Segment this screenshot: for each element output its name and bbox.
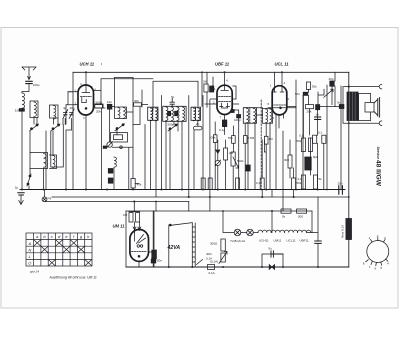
padder box 252 (111, 133, 128, 143)
svg-text:Cg: Cg (48, 196, 52, 200)
bottom row resistors mid (213, 135, 217, 143)
wire horiz at 106.5 to speaker (287, 106, 340, 108)
svg-text:0,5M: 0,5M (248, 136, 255, 140)
svg-text:50n: 50n (295, 92, 300, 96)
capacitor at heater end (315, 241, 321, 243)
svg-text:500k: 500k (237, 159, 244, 163)
svg-text:Ö: Ö (28, 261, 31, 266)
svg-text:50k: 50k (297, 139, 302, 143)
wire antenna to coil (22, 84, 29, 93)
wire: mid column verticals (162, 72, 210, 197)
svg-text:20k: 20k (307, 110, 312, 114)
svg-text:0,1A: 0,1A (209, 271, 215, 275)
svg-text:Service: Service (376, 147, 380, 160)
resistor 20k anode UCH (95, 105, 103, 108)
ground earth arrow (19, 195, 23, 205)
svg-text:gez.14: gez.14 (30, 269, 39, 273)
UM11 internals (132, 222, 153, 267)
resistors to bus right (313, 135, 317, 143)
wire to heaters (253, 232, 258, 234)
IF transformer ZF1 (148, 107, 158, 121)
wire top links (95, 79, 153, 184)
power box left cap (153, 211, 155, 250)
capacitor dark 10n (210, 86, 214, 92)
wire verticals left section (30, 118, 66, 190)
table letters (27, 234, 90, 265)
svg-text:2µ: 2µ (15, 186, 19, 190)
svg-text:UCL11: UCL11 (287, 239, 296, 243)
series resistor 300ohm (221, 239, 225, 251)
svg-text:UM11: UM11 (274, 239, 282, 243)
coil under padder (114, 157, 116, 167)
capacitor 100p antenna coupling (26, 81, 32, 83)
UBF11 internals (205, 72, 239, 120)
wire: UCH grid left boundary (66, 72, 73, 189)
wire: second bus (52, 196, 349, 198)
band filter coil second (50, 105, 59, 119)
wire long vertical x261 (260, 100, 262, 190)
junction dots on buses (21, 71, 350, 268)
AF transformer (243, 108, 256, 124)
svg-text:UBF11: UBF11 (300, 239, 309, 243)
svg-text:40p: 40p (70, 106, 75, 110)
band switch contacts row 1 (30, 124, 39, 131)
tube UCH11 (78, 85, 94, 115)
resistor blob under coil (108, 169, 113, 174)
cone (374, 98, 380, 118)
mains switch (169, 223, 193, 267)
wire column under caps (102, 105, 134, 190)
svg-text:1n: 1n (316, 113, 320, 117)
wire: top HT bus (73, 71, 349, 73)
svg-text:500: 500 (298, 215, 303, 219)
heater winding UCL11 (284, 230, 297, 232)
svg-text:5,8: 5,8 (15, 109, 20, 113)
X marks (34, 240, 41, 247)
svg-text:5p: 5p (171, 95, 175, 99)
tube pin digits (75, 79, 290, 121)
svg-text:100k: 100k (209, 136, 216, 140)
switch contacts under osc transformer (115, 124, 125, 135)
svg-text:10n: 10n (107, 100, 112, 104)
capacitor 50n (303, 92, 308, 95)
valve socket view (366, 238, 389, 266)
capacitor dark at UM11 right (151, 259, 156, 263)
capacitor 10n dark (107, 104, 112, 109)
wire column x66 x71 (65, 119, 71, 131)
UM11 stage: grid resistors 1M (129, 213, 133, 223)
resistor 300 (288, 155, 292, 168)
wire: inner frame line (153, 81, 198, 110)
wire: chassis ground bus (20, 189, 345, 191)
volume potentiometer 500k (231, 152, 239, 168)
bracket wires (343, 87, 379, 124)
shield dashes in IF cans (153, 107, 250, 123)
svg-text:500p: 500p (96, 101, 103, 105)
capacitor 25n on bus (339, 186, 343, 194)
wire: second top line (115, 77, 134, 79)
svg-text:4p: 4p (63, 106, 67, 110)
svg-text:30k: 30k (312, 85, 317, 89)
svg-text:50n: 50n (157, 259, 162, 263)
svg-text:0,1A: 0,1A (206, 257, 212, 261)
capacitor 2n pill (194, 126, 203, 130)
band switch contacts row 2 (51, 124, 60, 131)
dial lamp 2 (247, 229, 254, 236)
svg-text:Ausführung 48 GW usw. UM 11: Ausführung 48 GW usw. UM 11 (49, 276, 97, 280)
variable resistor 0,1A (219, 252, 227, 264)
resistor 50k low (292, 178, 296, 190)
speaker assembly (339, 84, 382, 125)
resistor pair right mid (301, 138, 305, 152)
capacitor 2u to earth (18, 193, 24, 195)
magnet (365, 103, 374, 113)
rotated model text (374, 147, 381, 187)
fuse 0,1A on mains bus (207, 265, 214, 270)
wave band switch lower (27, 169, 31, 190)
rotated Netz label (341, 225, 345, 238)
svg-text:1M: 1M (269, 137, 274, 141)
oscillator coil assembly (30, 153, 57, 169)
wire: L1 down to ground bus (21, 111, 23, 189)
wire: heater feed line (126, 210, 312, 212)
wire: third bus segment (45, 201, 189, 203)
capacitor dark right of 20k (316, 105, 320, 110)
core mark left of trimmer (103, 146, 106, 148)
svg-text:42VA: 42VA (167, 245, 181, 251)
IF transformer ZF3 (191, 107, 201, 121)
padder trimmer circle (107, 142, 113, 148)
power section: verticals from bus (156, 197, 210, 211)
resistors lower right (301, 175, 305, 189)
svg-text:c: c (51, 234, 53, 239)
resistor 40k (131, 179, 135, 189)
svg-text:UCH 11: UCH 11 (80, 62, 95, 67)
resistor 0,3 (260, 178, 264, 190)
svg-text:50k: 50k (228, 136, 233, 140)
svg-text:100p: 100p (234, 118, 241, 122)
wire: bottom mains bus (126, 266, 349, 268)
tube UCL11 (272, 86, 287, 115)
switch bowtie on bus (269, 265, 274, 270)
capacitor 50n blob (108, 178, 113, 183)
resistor 2M (224, 148, 228, 160)
shunt resistors on heater line (272, 211, 312, 233)
resistor 2M grid UBF (204, 84, 208, 92)
core marks L1 (19, 109, 24, 112)
indicator diode circle (215, 140, 220, 190)
capacitor dark mid (246, 165, 250, 171)
tube UBF11 (217, 85, 232, 114)
jack Cg (42, 190, 47, 202)
inductor L1 antenna input coil (22, 93, 25, 108)
svg-text:30k: 30k (134, 99, 139, 103)
resistor 500 heater shunt (297, 209, 307, 213)
svg-text:5k: 5k (319, 177, 323, 181)
svg-text:100p: 100p (33, 83, 40, 87)
pin blob UBF (231, 110, 234, 113)
svg-text:25n: 25n (338, 182, 343, 186)
svg-text:500p: 500p (168, 123, 175, 127)
svg-text:0,1: 0,1 (299, 134, 304, 138)
svg-text:A: A (27, 241, 31, 246)
svg-text:48 II/GW: 48 II/GW (374, 160, 381, 187)
svg-text:N: N (28, 247, 31, 252)
svg-text:2M: 2M (203, 80, 208, 84)
svg-text:2n: 2n (196, 122, 200, 126)
svg-text:UCH11: UCH11 (259, 239, 269, 243)
svg-text:40k: 40k (137, 183, 142, 187)
resistor col (201, 178, 205, 190)
wire extra mesh verticals (46, 72, 341, 197)
trimmer capacitor 40p (69, 110, 74, 119)
transformer second half (263, 108, 273, 123)
oscillator transformer windings (115, 107, 127, 119)
svg-text:5n: 5n (269, 247, 273, 251)
wire right section verticals (296, 80, 341, 190)
UM11 box (126, 211, 160, 267)
suppressor box (262, 254, 283, 267)
trimmer 5p above ZF2 (170, 99, 174, 107)
svg-text:2M: 2M (229, 151, 234, 155)
tube UM11 (130, 230, 149, 262)
wire below UBF (225, 110, 239, 135)
band filter coil pair left (30, 101, 38, 118)
svg-text:0,3: 0,3 (256, 181, 261, 185)
potentiometer arrow (324, 89, 333, 97)
capacitor 8uF dark (305, 157, 311, 170)
UCL right components: resistor 30k (306, 82, 310, 90)
svg-text:1M: 1M (123, 213, 128, 217)
resistor 30k series (134, 103, 142, 106)
coupling circle on line (120, 146, 123, 149)
svg-text:50k: 50k (297, 181, 302, 185)
svg-text:UM 11: UM 11 (113, 224, 126, 229)
svg-text:40Ω: 40Ω (206, 252, 212, 256)
heater winding UBF11 (298, 230, 311, 232)
svg-text:300: 300 (284, 158, 289, 162)
switch contacts mid row (168, 124, 178, 131)
svg-text:UCL 11: UCL 11 (275, 62, 290, 67)
svg-text:300Ω: 300Ω (210, 242, 218, 246)
wire: right vertical main bus (348, 72, 350, 267)
capacitor 1n plates (315, 117, 321, 119)
wire heater end down (306, 197, 318, 241)
terminal hooks (379, 84, 382, 89)
svg-text:20k: 20k (96, 110, 101, 114)
output transformer dark (347, 92, 358, 121)
capacitor 0,1u below UBF (222, 120, 226, 127)
resistor 45k (236, 178, 240, 190)
Netz dropper bar (346, 219, 352, 240)
capacitor 5n in suppressor (271, 251, 283, 257)
trimmer capacitor 4p (63, 110, 68, 119)
capacitor 40p dark (330, 81, 334, 86)
small value labels (15, 77, 343, 275)
svg-text:Netz 0,1A: Netz 0,1A (341, 225, 345, 238)
wire: mid verticals (115, 78, 143, 190)
heater chain corner (223, 211, 234, 233)
IF transformer ZF2 (163, 106, 186, 121)
heater winding UCH11 (258, 230, 271, 232)
oscillator shield box (51, 125, 64, 168)
svg-text:0,1: 0,1 (318, 131, 323, 135)
svg-text:40p: 40p (329, 77, 334, 81)
svg-text:L: L (29, 254, 31, 259)
dial lamp 1 (234, 229, 241, 236)
resistor dark at UBF right (237, 115, 241, 118)
svg-text:UBF 11: UBF 11 (215, 62, 230, 67)
coupling cap 3n (339, 105, 344, 109)
speaker frame (359, 94, 371, 121)
svg-text:5k: 5k (282, 215, 286, 219)
svg-text:0,1µ: 0,1µ (219, 128, 225, 132)
UCL11 internals (268, 72, 296, 128)
band switch table (26, 233, 92, 266)
svg-text:3n: 3n (337, 101, 341, 105)
svg-text:7V(8x)0,1A: 7V(8x)0,1A (230, 239, 245, 243)
svg-text:8µF: 8µF (313, 155, 318, 159)
socket pin numbers (363, 234, 389, 271)
wire between lamps (241, 232, 247, 234)
antenna (22, 67, 36, 80)
resistor 5k heater shunt (281, 209, 291, 213)
resistor 20k horizontal (305, 105, 313, 109)
wire mid-lower verticals (215, 115, 293, 211)
mains transformer (192, 223, 202, 266)
heater winding UM11 (271, 230, 284, 232)
UCH11 internals (66, 72, 103, 189)
